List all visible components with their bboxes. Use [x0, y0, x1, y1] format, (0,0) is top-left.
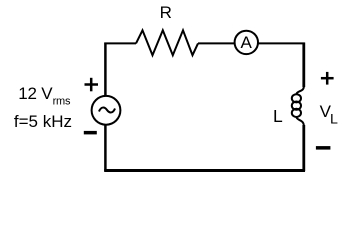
inductor coil loop 2	[292, 102, 301, 110]
wire left vertical upper (source to corner)	[104, 43, 107, 96]
AC source sine symbol	[99, 108, 115, 113]
svg-text:L: L	[273, 106, 283, 126]
inductor coil loop 1	[292, 94, 301, 102]
inductor coil loop 3	[292, 109, 301, 117]
inductor coil top hook	[296, 87, 303, 95]
AC source V1 circle	[92, 96, 121, 125]
inductor coil bottom hook	[296, 117, 303, 126]
svg-text:R: R	[160, 3, 172, 22]
svg-text:A: A	[241, 33, 253, 52]
source polarity plus sign	[85, 78, 99, 92]
svg-text:f=5 kHz: f=5 kHz	[14, 112, 72, 131]
svg-text:VL: VL	[320, 102, 338, 127]
wire top-left horizontal segment	[104, 42, 136, 44]
wire right vertical lower (coil to corner)	[302, 125, 305, 171]
wire right vertical upper (corner to coil)	[302, 43, 305, 88]
svg-text:12 Vrms: 12 Vrms	[18, 84, 71, 107]
source polarity minus sign	[84, 131, 97, 135]
wire bottom horizontal	[104, 169, 305, 172]
resistor R zigzag	[136, 30, 198, 55]
ammeter U1 circle	[235, 31, 258, 54]
wire left vertical lower (corner to source)	[104, 125, 107, 171]
wire resistor to ammeter	[198, 42, 235, 44]
wire ammeter to top-right corner	[258, 42, 305, 44]
inductor polarity plus sign	[321, 72, 334, 85]
inductor polarity minus sign	[316, 146, 331, 150]
